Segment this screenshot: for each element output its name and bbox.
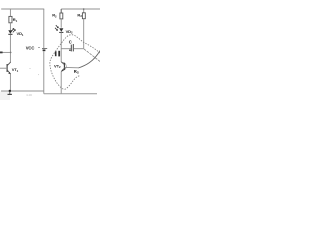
capacitor C plate left — [70, 45, 72, 52]
wire: R3 down to coupling node — [83, 19, 85, 49]
svg-text:C: C — [69, 40, 72, 45]
wire: battery branch vertical lower — [43, 51, 45, 93]
tick between VCC and battery wire — [38, 47, 40, 49]
svg-text:VT2: VT2 — [54, 63, 61, 69]
terminal tick on tap line — [0, 51, 3, 53]
junction dot at ground node — [9, 90, 11, 92]
LED VD2 receive arrows — [55, 25, 58, 30]
junction dot tap/branch — [10, 52, 12, 54]
svg-text:4-18: 4-18 — [26, 93, 32, 97]
junction dot R3 top — [83, 8, 85, 10]
svg-text:R2: R2 — [52, 13, 57, 19]
resistor R2 — [60, 13, 63, 19]
wire: R1 to VD1 — [9, 23, 11, 30]
transistor VT2 collector lead — [61, 62, 64, 65]
wire: coupling line left part — [61, 48, 71, 50]
svg-text:VT1: VT1 — [12, 67, 19, 73]
svg-text:VD2: VD2 — [66, 29, 73, 35]
capacitor C plate right — [72, 44, 74, 51]
photoresistor lever line — [78, 51, 100, 68]
transistor VT1 base bar — [6, 64, 8, 72]
transistor VT1 collector lead — [7, 62, 10, 65]
svg-text:R1: R1 — [13, 17, 18, 23]
transistor VT1 emitter arrowhead — [8, 72, 10, 74]
resistor R3 — [82, 13, 85, 19]
wire: R2 to VD2 — [60, 19, 62, 28]
wire: left section top rail — [1, 8, 44, 10]
wire: left section bottom rail — [1, 90, 44, 92]
battery cell long plate — [42, 47, 47, 49]
transistor VT1 emitter lead — [7, 70, 10, 74]
battery cell short thick plate — [43, 49, 46, 51]
wire: VD1 down to VT1 collector — [9, 35, 11, 62]
transistor VT1 base lead — [0, 67, 7, 69]
wire: collector tap line to left edge — [0, 51, 11, 53]
wire: R2 branch from rail corner — [60, 9, 62, 13]
wire: VD2 down to VT2 collector — [60, 32, 62, 62]
svg-text:RG: RG — [74, 69, 80, 75]
svg-text:VD1: VD1 — [17, 31, 24, 37]
transistor VT2 emitter lead — [61, 69, 64, 72]
wire: VT1 emitter down to ground rail — [9, 74, 11, 91]
LED VD2 cathode bar — [59, 31, 63, 33]
wire: battery branch vertical upper — [43, 9, 45, 48]
wire: VT2 base lead to the right — [65, 66, 79, 68]
LED VD1 triangle — [8, 30, 12, 34]
LED VD1 cathode bar — [8, 33, 12, 35]
speck 2 — [38, 74, 39, 75]
svg-text:VCC: VCC — [26, 46, 35, 51]
transistor VT2 emitter arrowhead — [62, 69, 64, 71]
scanner shadow bottom-left — [0, 92, 10, 101]
resistor R1 — [9, 16, 12, 22]
svg-text:R3: R3 — [77, 13, 82, 19]
wire: R3 branch from top rail — [83, 9, 85, 13]
LED VD2 triangle — [59, 28, 63, 32]
transistor VT2 envelope circle — [63, 63, 67, 71]
dashed enclosure curve — [50, 35, 100, 90]
ground bar — [8, 93, 12, 95]
ground stub — [9, 91, 11, 94]
wire: right section bottom rail — [44, 93, 97, 95]
LED VD1 emission arrows — [11, 28, 15, 32]
wire: left branch from top rail to R1 — [9, 9, 11, 16]
speck 1 — [30, 68, 31, 69]
wire: slant line from coupling node to right edge — [84, 49, 100, 62]
wire: VT2 emitter down to bottom rail — [60, 72, 62, 94]
node label glyphs left of junction — [55, 51, 57, 56]
wire: coupling line right part — [74, 48, 84, 50]
transistor VT2 base bar — [63, 63, 65, 70]
wire: right section top rail — [61, 8, 100, 10]
polarity dot left of capacitor — [69, 49, 71, 51]
